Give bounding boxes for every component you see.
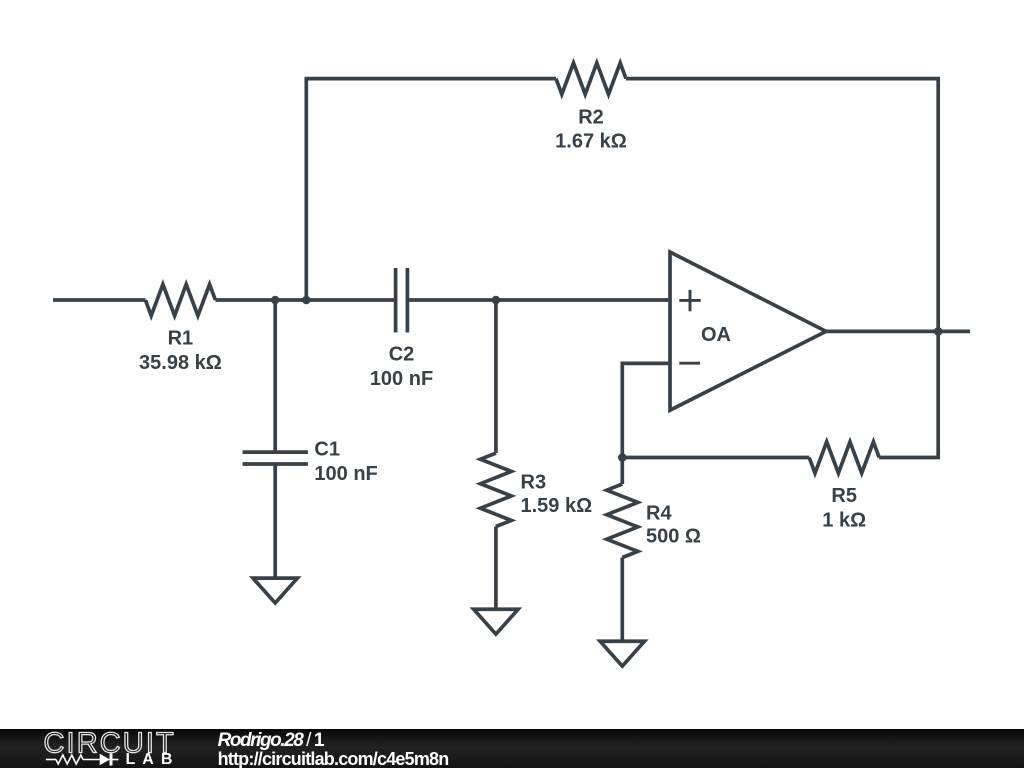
ground under R4	[596, 639, 649, 669]
wire R3 tap down	[494, 300, 498, 453]
wire inverting input stub and down	[622, 363, 670, 457]
resistor R3	[480, 453, 511, 526]
svg-text:100 nF: 100 nF	[314, 463, 377, 485]
svg-text:1.67 kΩ: 1.67 kΩ	[555, 131, 627, 153]
wire C1 to ground	[273, 464, 277, 578]
wire R3 to ground	[494, 527, 498, 610]
svg-text:1.59 kΩ: 1.59 kΩ	[521, 495, 593, 517]
svg-text:1 kΩ: 1 kΩ	[822, 509, 866, 531]
junction node output	[934, 327, 943, 336]
svg-text:LAB: LAB	[126, 751, 180, 768]
wire R2 to top right corner and down right side	[626, 79, 938, 458]
junction node R2 tap	[302, 296, 311, 305]
svg-text:500 Ω: 500 Ω	[646, 526, 701, 548]
wire C1 tap down	[273, 300, 277, 452]
junction node C1 tap	[271, 296, 280, 305]
junction node inverting	[618, 453, 627, 462]
wire R5 to inverting node	[622, 456, 809, 460]
svg-text:R2: R2	[578, 106, 604, 128]
junction node R3 tap	[492, 296, 501, 305]
resistor R2	[556, 63, 626, 94]
svg-text:http://circuitlab.com/c4e5m8n: http://circuitlab.com/c4e5m8n	[218, 749, 449, 768]
wire node to R4	[620, 458, 624, 485]
ground under R3	[470, 607, 523, 637]
svg-text:R3: R3	[521, 471, 547, 493]
wire input left to R1	[53, 298, 145, 302]
resistor R4	[607, 484, 638, 558]
svg-text:C2: C2	[389, 344, 415, 366]
svg-text:35.98 kΩ: 35.98 kΩ	[139, 352, 222, 374]
footer bar	[0, 729, 1024, 768]
capacitor C2	[396, 268, 408, 333]
svg-text:100 nF: 100 nF	[370, 368, 433, 390]
wire R1 to C2 left plate	[215, 298, 395, 302]
op-amp + pin mark	[679, 290, 700, 311]
wire output	[826, 330, 970, 334]
logo diode wire	[113, 759, 119, 761]
wire R4 to ground	[620, 558, 624, 642]
svg-text:R1: R1	[168, 328, 194, 350]
svg-text:R4: R4	[646, 502, 672, 524]
logo resistor symbol	[46, 755, 100, 764]
wire R2 tap up and over to R2	[306, 79, 556, 300]
logo diode symbol	[100, 754, 113, 766]
resistor R5	[809, 442, 879, 473]
op-amp OA	[670, 252, 826, 410]
svg-text:Rodrigo.28 / 1: Rodrigo.28 / 1	[218, 730, 325, 751]
resistor R1	[145, 284, 215, 315]
wire C2 right plate to op-amp + input	[407, 298, 670, 302]
op-amp - pin mark	[679, 362, 700, 365]
svg-text:R5: R5	[831, 485, 857, 507]
svg-text:OA: OA	[701, 324, 731, 346]
svg-text:C1: C1	[314, 438, 340, 460]
ground under C1	[249, 576, 302, 606]
capacitor C1	[243, 452, 308, 464]
